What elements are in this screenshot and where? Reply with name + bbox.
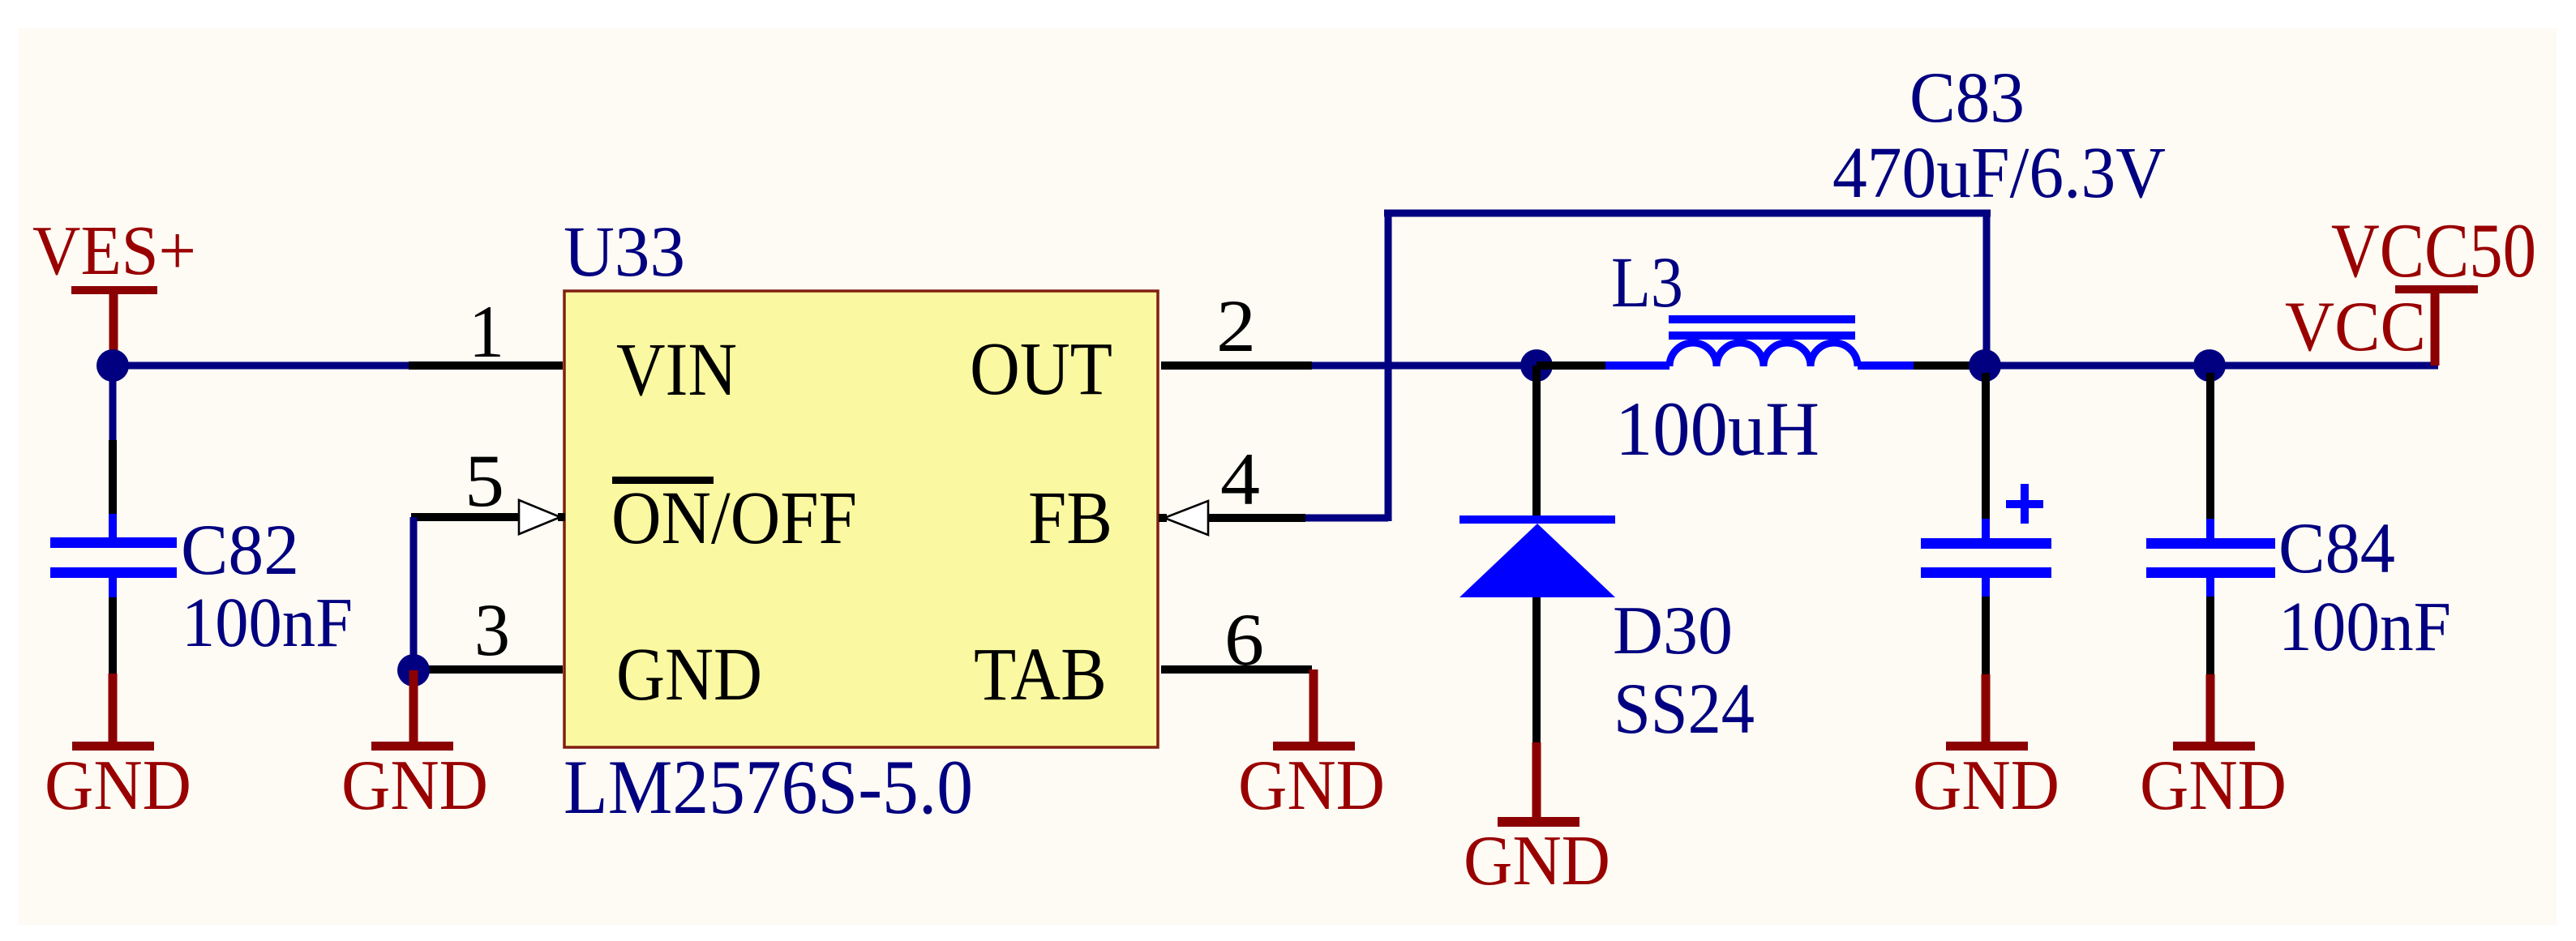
pin 4 (FB) of U33 with arrow [1159, 501, 1305, 535]
svg-text:TAB: TAB [974, 633, 1107, 716]
wire feedback top horizontal [1384, 210, 1991, 217]
svg-text:4: 4 [1220, 438, 1260, 520]
wire VCC net right [2210, 362, 2438, 370]
wire VCC net [1985, 362, 2210, 370]
pin 6 (TAB) of U33 [1161, 665, 1312, 674]
node junction OUT/D30/L3 [1520, 349, 1553, 382]
capacitor C82 [50, 440, 177, 674]
svg-text:VIN: VIN [616, 328, 737, 412]
pin 1 (VIN) of U33 [409, 361, 563, 370]
node junction VCC/C84 [2193, 349, 2226, 382]
svg-text:6: 6 [1224, 598, 1264, 681]
wire ON/OFF to GND vertical [410, 517, 418, 670]
svg-text:ON/OFF: ON/OFF [611, 477, 857, 560]
ground GND under TAB [1238, 669, 1385, 825]
svg-text:C84: C84 [2278, 509, 2395, 588]
inductor L3 [1605, 315, 1914, 366]
power port VES+ [32, 211, 196, 357]
svg-text:100nF: 100nF [182, 583, 353, 661]
svg-text:VCC: VCC [2285, 288, 2426, 366]
capacitor C84 [2146, 373, 2275, 674]
svg-text:GND: GND [1913, 746, 2060, 825]
diode D30 [1459, 366, 1615, 742]
ground GND under D30 [1464, 742, 1610, 900]
wire feedback vertical [1385, 213, 1392, 521]
svg-text:GND: GND [1464, 822, 1610, 900]
svg-text:2: 2 [1216, 284, 1256, 367]
svg-text:GND: GND [45, 746, 191, 825]
svg-text:470uF/6.3V: 470uF/6.3V [1832, 133, 2166, 213]
pin name ON/OFF with overline [611, 477, 857, 560]
pin 3 (GND) of U33 [414, 665, 563, 674]
svg-text:U33: U33 [564, 212, 685, 292]
wire VIN net vertical to C82 [109, 366, 117, 440]
svg-text:3: 3 [474, 588, 510, 671]
svg-text:5: 5 [465, 439, 504, 522]
ground GND under C83 [1913, 674, 2060, 825]
wire L3 to VCC node [1914, 361, 1970, 370]
svg-text:LM2576S-5.0: LM2576S-5.0 [564, 744, 973, 830]
node junction ON/OFF-GND [397, 654, 430, 687]
node junction VES+/C82/VIN [96, 349, 129, 382]
wire OUT net [1312, 362, 1524, 370]
svg-text:VES+: VES+ [32, 211, 196, 289]
node junction L3/C83/VCC [1969, 349, 2001, 382]
svg-text:GND: GND [616, 633, 762, 716]
wire feedback down to VCC node [1983, 213, 1991, 366]
ground GND under U33 pin3 [341, 670, 488, 825]
svg-text:C83: C83 [1909, 58, 2025, 138]
pin 2 (OUT) of U33 [1161, 361, 1312, 370]
wire black stub right of junction [1537, 361, 1605, 370]
capacitor C83 polarized [1921, 373, 2051, 674]
pin 5 (ON/OFF) wire and arrow [411, 500, 565, 534]
svg-text:L3: L3 [1611, 243, 1683, 323]
svg-text:D30: D30 [1613, 592, 1733, 669]
svg-text:VCC50: VCC50 [2331, 207, 2536, 293]
svg-text:100nF: 100nF [2278, 587, 2451, 665]
wire FB to feedback loop [1305, 515, 1388, 522]
power port VCC50 [2331, 207, 2536, 366]
svg-text:OUT: OUT [970, 327, 1112, 411]
ground GND under C84 [2140, 674, 2287, 825]
svg-text:GND: GND [1238, 746, 1385, 825]
svg-text:GND: GND [341, 746, 488, 825]
ground GND under C82 [45, 674, 191, 825]
svg-text:FB: FB [1028, 477, 1112, 560]
svg-text:GND: GND [2140, 746, 2287, 825]
wire VIN net horizontal [113, 362, 409, 370]
svg-text:SS24: SS24 [1614, 669, 1755, 749]
IC U33 body [564, 291, 1158, 747]
svg-text:C82: C82 [181, 511, 299, 590]
svg-text:100uH: 100uH [1615, 386, 1819, 472]
svg-text:1: 1 [469, 290, 504, 373]
